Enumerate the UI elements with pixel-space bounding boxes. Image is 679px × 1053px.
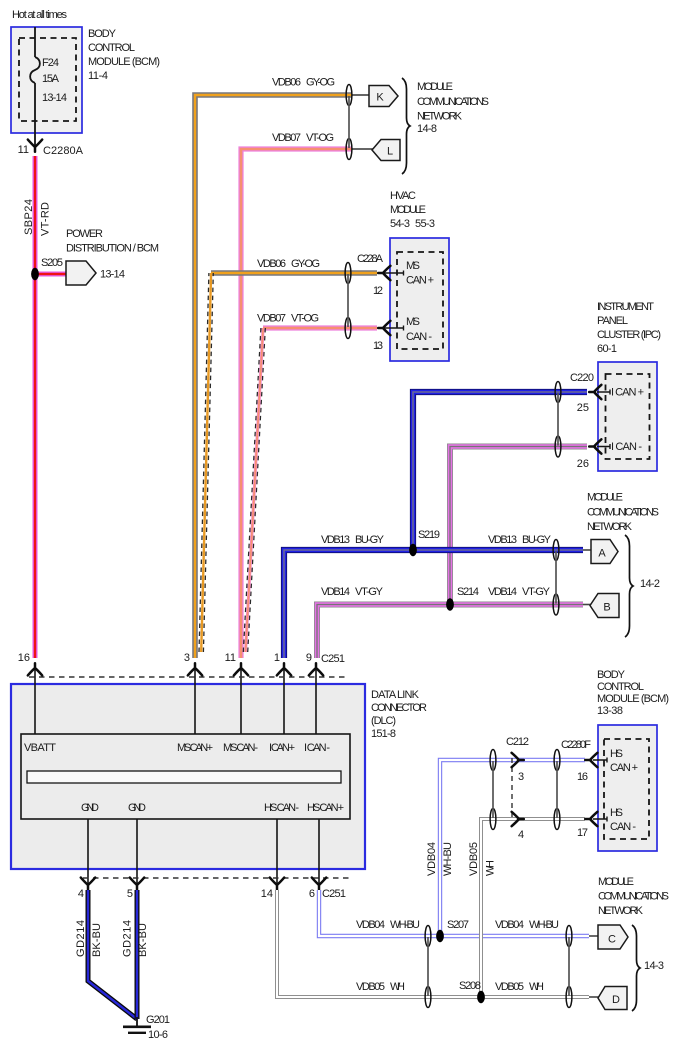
svg-text:151-8: 151-8 xyxy=(371,728,396,740)
svg-text:VDB06: VDB06 xyxy=(257,258,286,270)
wire VDB05 WH pin14 row D xyxy=(277,890,589,997)
DLC bottom pin leads xyxy=(87,819,89,888)
dashed connector face C251 top xyxy=(29,676,347,678)
svg-text:VDB05: VDB05 xyxy=(356,981,385,993)
DLC inner terminal box xyxy=(21,734,350,819)
svg-text:MODULE (BCM): MODULE (BCM) xyxy=(597,693,669,705)
svg-text:CAN +: CAN + xyxy=(610,762,638,774)
inline connector on C wire xyxy=(425,926,431,947)
svg-text:VDB14: VDB14 xyxy=(488,586,517,598)
svg-text:I CAN +: I CAN + xyxy=(611,387,644,399)
wire GD214 BK-BU pin4 to ground xyxy=(88,890,137,1019)
svg-text:NETWORK: NETWORK xyxy=(417,111,463,123)
svg-text:9: 9 xyxy=(306,652,312,664)
svg-text:VT-OG: VT-OG xyxy=(306,132,334,144)
svg-text:CONTROL: CONTROL xyxy=(597,681,644,693)
svg-text:COMMUNICATIONS: COMMUNICATIONS xyxy=(598,891,669,903)
svg-text:MS: MS xyxy=(406,316,420,328)
svg-text:11: 11 xyxy=(18,144,29,156)
inline connector on L wire xyxy=(346,139,352,160)
pentagon connector L xyxy=(372,140,400,161)
svg-text:14-2: 14-2 xyxy=(640,578,660,590)
splice S219 xyxy=(409,544,417,556)
svg-text:13-38: 13-38 xyxy=(597,705,623,717)
svg-text:13-14: 13-14 xyxy=(42,92,67,104)
inline connector on B wire xyxy=(553,594,559,615)
wire stub to power distribution xyxy=(35,272,67,277)
svg-text:MODULE: MODULE xyxy=(587,492,623,504)
fuse F24 element xyxy=(30,57,40,83)
svg-text:SBP24: SBP24 xyxy=(23,199,35,235)
splice S208 xyxy=(477,991,485,1003)
wire VDB04 WH-BU riser to BCM xyxy=(440,760,585,936)
svg-text:4: 4 xyxy=(518,829,524,841)
svg-text:COMMUNICATIONS: COMMUNICATIONS xyxy=(417,96,489,108)
svg-text:GND: GND xyxy=(81,802,99,814)
svg-text:16: 16 xyxy=(577,771,588,783)
pentagon connector C xyxy=(598,925,628,949)
svg-text:WH: WH xyxy=(529,981,544,993)
svg-text:GND: GND xyxy=(128,802,146,814)
ground G201 symbol xyxy=(136,1017,138,1026)
svg-text:MODULE: MODULE xyxy=(417,81,453,93)
svg-text:HS CAN +: HS CAN + xyxy=(307,802,344,814)
svg-text:GY-OG: GY-OG xyxy=(291,258,320,270)
box: body control module BCM right xyxy=(598,725,657,851)
arrow into C212 top xyxy=(512,753,524,767)
svg-text:S208: S208 xyxy=(459,980,481,992)
svg-text:S205: S205 xyxy=(41,257,63,269)
svg-text:WH-BU: WH-BU xyxy=(390,919,420,931)
svg-text:5: 5 xyxy=(127,888,133,900)
svg-text:HS CAN -: HS CAN - xyxy=(264,802,299,814)
svg-text:60-1: 60-1 xyxy=(597,343,617,355)
svg-text:54-3: 54-3 xyxy=(390,218,410,230)
svg-text:VDB04: VDB04 xyxy=(495,919,524,931)
svg-text:HS: HS xyxy=(610,807,623,819)
svg-text:VDB14: VDB14 xyxy=(321,586,350,598)
wire: fuse feed black xyxy=(34,27,36,57)
svg-text:GD214: GD214 xyxy=(75,920,87,957)
wire VDB04 WH-BU pin6 row C xyxy=(319,890,589,936)
wire VDB13 BU-GY to IPC xyxy=(413,392,587,550)
svg-text:12: 12 xyxy=(373,285,383,297)
wire VDB14 VT-GY to IPC xyxy=(450,447,587,605)
svg-text:DISTRIBUTION / BCM: DISTRIBUTION / BCM xyxy=(66,243,159,255)
wire VDB13 BU-GY row A / pin1 xyxy=(284,550,583,658)
inline connector C212 top xyxy=(490,750,496,771)
inline connector on D wire xyxy=(425,987,431,1008)
wire VDB06 slanted segment w/ dashed edges xyxy=(199,273,209,652)
svg-text:GY-OG: GY-OG xyxy=(306,77,335,89)
box: data link connector DLC xyxy=(11,684,365,869)
svg-text:D: D xyxy=(612,994,620,1006)
svg-text:VT-GY: VT-GY xyxy=(355,586,384,598)
inline connector on K wire xyxy=(346,85,352,106)
dashed connector face C251 bottom xyxy=(83,877,350,879)
svg-text:A: A xyxy=(598,548,606,560)
svg-text:MODULE (BCM): MODULE (BCM) xyxy=(88,56,160,68)
svg-text:I CAN -: I CAN - xyxy=(611,441,642,453)
svg-text:VBATT: VBATT xyxy=(24,742,56,754)
svg-text:MS CAN -: MS CAN - xyxy=(223,742,258,754)
svg-text:MS: MS xyxy=(406,260,420,272)
svg-text:1: 1 xyxy=(274,652,280,664)
svg-text:POWER: POWER xyxy=(66,228,103,240)
svg-text:WH: WH xyxy=(485,860,497,876)
inline connector C220 bottom xyxy=(555,436,561,457)
svg-text:MODULE: MODULE xyxy=(390,204,426,216)
svg-text:CAN +: CAN + xyxy=(406,275,434,287)
svg-text:CONNECTOR: CONNECTOR xyxy=(371,702,427,714)
svg-text:S219: S219 xyxy=(418,529,440,541)
svg-text:4: 4 xyxy=(78,888,84,900)
DLC slot rectangle xyxy=(27,771,341,783)
svg-text:15A: 15A xyxy=(42,73,60,85)
svg-text:VDB05: VDB05 xyxy=(495,981,524,993)
svg-text:VDB07: VDB07 xyxy=(257,313,286,325)
svg-text:C228A: C228A xyxy=(357,253,384,265)
svg-text:14: 14 xyxy=(261,888,273,900)
wire SBP24 VT-RD vertical to DLC pin 16 xyxy=(33,156,38,658)
splice S214 xyxy=(446,598,454,610)
svg-text:VDB04: VDB04 xyxy=(356,919,385,931)
inline connector C2280F top xyxy=(554,750,560,771)
svg-text:C251: C251 xyxy=(322,888,346,900)
svg-text:CAN -: CAN - xyxy=(610,821,636,833)
connector C2280A arrow down xyxy=(28,140,42,152)
svg-text:K: K xyxy=(376,92,384,104)
svg-text:VDB04: VDB04 xyxy=(426,842,438,876)
wire VDB06 GY-OG from DLC pin3 to connector K xyxy=(195,95,352,658)
wire VDB07 slanted segment w/ dashed edges xyxy=(243,328,261,652)
pentagon connector: power distribution xyxy=(66,261,96,285)
svg-text:WH-BU: WH-BU xyxy=(529,919,559,931)
svg-text:BK-BU: BK-BU xyxy=(91,923,103,957)
svg-text:GD214: GD214 xyxy=(122,920,134,957)
pentagon connector D xyxy=(598,987,627,1010)
svg-text:26: 26 xyxy=(577,458,589,470)
svg-text:S207: S207 xyxy=(447,919,469,931)
inline connector C220 top xyxy=(555,382,561,403)
svg-text:NETWORK: NETWORK xyxy=(587,521,633,533)
inline connector C228A bottom xyxy=(345,318,351,339)
inline connector C228A top xyxy=(345,263,351,284)
svg-text:VT-GY: VT-GY xyxy=(522,586,551,598)
box: HVAC module xyxy=(390,238,449,361)
svg-text:11-4: 11-4 xyxy=(88,70,108,82)
svg-text:3: 3 xyxy=(518,771,524,783)
svg-text:BK-BU: BK-BU xyxy=(137,923,149,957)
svg-text:F24: F24 xyxy=(42,57,59,69)
pentagon connector K xyxy=(369,86,398,107)
wire VDB06 GY-OG to HVAC pin12 (horizontal) xyxy=(211,270,377,276)
svg-text:I CAN -: I CAN - xyxy=(304,742,330,754)
pentagon connector A xyxy=(591,540,618,564)
svg-text:CONTROL: CONTROL xyxy=(88,42,135,54)
svg-text:G201: G201 xyxy=(146,1014,170,1026)
svg-text:B: B xyxy=(603,602,610,614)
svg-text:BODY: BODY xyxy=(88,28,117,40)
svg-text:L: L xyxy=(387,146,393,158)
DLC top pin arrows xyxy=(28,663,42,675)
svg-text:16: 16 xyxy=(18,652,30,664)
svg-text:C212: C212 xyxy=(506,736,529,748)
svg-text:VDB07: VDB07 xyxy=(272,132,301,144)
splice S205 xyxy=(31,268,39,280)
svg-text:BU-GY: BU-GY xyxy=(355,534,385,546)
svg-text:10-6: 10-6 xyxy=(148,1029,168,1041)
svg-text:55-3: 55-3 xyxy=(415,218,435,230)
box: instrument panel cluster IPC xyxy=(598,362,657,471)
arrow into BCM HS CAN- xyxy=(585,812,597,826)
svg-text:CAN -: CAN - xyxy=(406,331,432,343)
svg-text:VDB06: VDB06 xyxy=(272,77,301,89)
svg-text:VT-OG: VT-OG xyxy=(291,313,319,325)
svg-text:NETWORK: NETWORK xyxy=(598,905,644,917)
svg-text:3: 3 xyxy=(184,652,190,664)
svg-text:14-3: 14-3 xyxy=(644,960,664,972)
wire GD214 BK-BU pin5 to ground xyxy=(135,890,140,1019)
svg-text:C220: C220 xyxy=(570,372,594,384)
wire VDB07 VT-OG to HVAC pin13 (horizontal) xyxy=(263,325,377,330)
svg-text:VT-RD: VT-RD xyxy=(40,202,52,236)
wire VDB05 WH riser to BCM xyxy=(481,819,585,997)
svg-text:S214: S214 xyxy=(457,586,479,598)
svg-text:C251: C251 xyxy=(321,653,345,665)
svg-text:COMMUNICATIONS: COMMUNICATIONS xyxy=(587,506,659,518)
box: body control module BCM top-left xyxy=(11,27,82,133)
svg-text:VDB13: VDB13 xyxy=(488,534,517,546)
inline connector on A wire xyxy=(553,540,559,561)
svg-text:DATA LINK: DATA LINK xyxy=(371,689,420,701)
svg-text:INSTRUMENT: INSTRUMENT xyxy=(597,301,654,313)
svg-text:C2280F: C2280F xyxy=(561,739,591,751)
pentagon connector B xyxy=(590,594,619,618)
inline connector before D xyxy=(566,987,572,1008)
wire VDB07 VT-OG from DLC pin11 to connector L xyxy=(241,149,352,658)
wire VDB14 VT-GY row B / pin9 xyxy=(317,605,583,659)
arrow into HVAC MS CAN- xyxy=(378,321,390,335)
splice S207 xyxy=(436,930,444,942)
inline connector C212 bottom xyxy=(490,809,496,830)
svg-text:17: 17 xyxy=(577,827,588,839)
arrow into HVAC MS CAN+ xyxy=(378,266,390,280)
dashed fuse box inside BCM xyxy=(19,38,76,121)
arrow into BCM HS CAN+ xyxy=(585,753,597,767)
svg-text:13-14: 13-14 xyxy=(100,269,125,281)
brace network 14-2 xyxy=(625,535,633,637)
svg-text:C: C xyxy=(608,934,616,946)
svg-text:(DLC): (DLC) xyxy=(371,715,396,727)
svg-text:HS: HS xyxy=(610,748,623,760)
svg-text:13: 13 xyxy=(373,340,383,352)
DLC bottom pin arrows xyxy=(81,878,95,890)
svg-text:MODULE: MODULE xyxy=(598,876,634,888)
DLC top pin leads xyxy=(34,666,36,734)
svg-text:PANEL: PANEL xyxy=(597,315,628,327)
stub lines into BCM xyxy=(593,758,607,763)
svg-text:BU-GY: BU-GY xyxy=(522,534,552,546)
brace network 14-3 xyxy=(632,925,640,1011)
inline connector C2280F bottom xyxy=(554,809,560,830)
svg-text:11: 11 xyxy=(225,652,236,664)
arrow into C212 bottom xyxy=(512,812,524,826)
svg-text:Hot at all times: Hot at all times xyxy=(12,9,68,21)
svg-text:VDB05: VDB05 xyxy=(468,842,480,876)
arrow into IPC I CAN+ xyxy=(589,385,601,399)
svg-text:MS CAN +: MS CAN + xyxy=(177,742,213,754)
svg-text:I CAN +: I CAN + xyxy=(269,742,295,754)
svg-text:VDB13: VDB13 xyxy=(321,534,350,546)
inline connector before C xyxy=(566,926,572,947)
svg-text:HVAC: HVAC xyxy=(390,190,416,202)
arrow into IPC I CAN- xyxy=(589,439,601,453)
svg-text:14-8: 14-8 xyxy=(417,123,437,135)
svg-text:C2280A: C2280A xyxy=(43,145,84,157)
svg-text:6: 6 xyxy=(309,888,315,900)
dashed connector face C212 xyxy=(511,758,513,821)
svg-text:BODY: BODY xyxy=(597,669,626,681)
svg-text:25: 25 xyxy=(577,402,589,414)
svg-text:WH-BU: WH-BU xyxy=(442,842,454,876)
svg-text:CLUSTER (IPC): CLUSTER (IPC) xyxy=(597,329,661,341)
svg-text:WH: WH xyxy=(390,981,405,993)
brace network 14-8 xyxy=(402,78,410,174)
